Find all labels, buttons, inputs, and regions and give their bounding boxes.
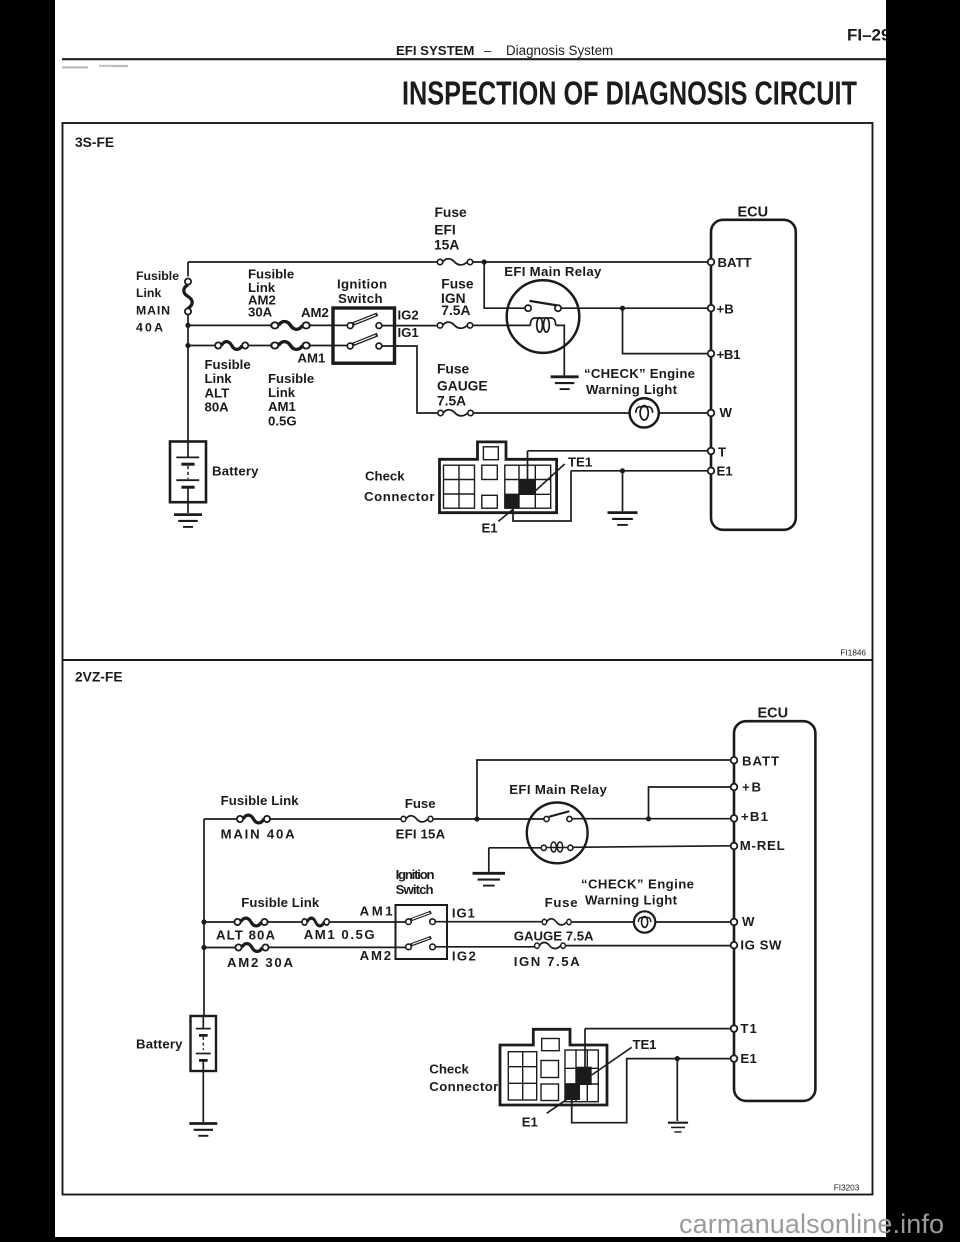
ignition switch contacts xyxy=(347,323,381,349)
warning light bulb xyxy=(634,911,655,932)
svg-text:Link: Link xyxy=(136,286,161,300)
svg-text:EFI Main Relay: EFI Main Relay xyxy=(504,264,602,279)
svg-text:–: – xyxy=(484,43,492,58)
2VZ-FE panel box xyxy=(63,660,873,1195)
svg-text:FI–29: FI–29 xyxy=(847,26,890,45)
wire IG2 to relay coil xyxy=(473,324,531,326)
fuse EFI 15A xyxy=(401,816,433,822)
wire relay to +B xyxy=(561,307,708,309)
wire T row xyxy=(528,450,708,452)
fusible link AM2 30A xyxy=(235,944,268,952)
svg-text:M-REL: M-REL xyxy=(740,838,785,853)
svg-text:7.5A: 7.5A xyxy=(441,303,470,318)
svg-text:+B: +B xyxy=(742,780,761,795)
ECU terminals xyxy=(731,757,738,1062)
svg-text:7.5A: 7.5A xyxy=(437,393,466,408)
warning light bulb xyxy=(630,398,659,427)
svg-text:+B: +B xyxy=(717,301,734,316)
relay blade xyxy=(549,811,569,817)
wire BATT riser xyxy=(477,760,731,819)
ground under E1 junction xyxy=(668,1123,688,1132)
svg-text:carmanualsonline.info: carmanualsonline.info xyxy=(679,1209,944,1239)
wire +B1 branch xyxy=(623,308,708,353)
fusible link MAIN 40A xyxy=(237,815,270,823)
svg-text:Fusible Link: Fusible Link xyxy=(221,793,300,808)
wire relay to +B1 xyxy=(572,818,731,820)
svg-text:W: W xyxy=(742,914,755,929)
svg-text:E1: E1 xyxy=(522,1114,538,1129)
TE1 pointer xyxy=(535,464,565,491)
svg-text:Fuse: Fuse xyxy=(545,895,578,910)
svg-text:ECU: ECU xyxy=(758,705,789,721)
check connector right grid xyxy=(565,1050,598,1102)
wire left riser top xyxy=(187,262,189,276)
wire relay coil to M-REL xyxy=(573,846,731,848)
relay contacts xyxy=(544,816,549,821)
svg-text:IG1: IG1 xyxy=(452,906,475,921)
2VZ-FE circuit xyxy=(136,705,815,1136)
3S-FE circuit xyxy=(136,205,796,536)
labels 2VZ-FE xyxy=(136,705,788,1129)
svg-text:T1: T1 xyxy=(740,1021,757,1036)
relay coil xyxy=(546,842,567,852)
page header xyxy=(62,26,890,112)
wire IG1 with corner down xyxy=(382,346,438,413)
svg-text:Warning Light: Warning Light xyxy=(585,893,678,908)
svg-text:AM1: AM1 xyxy=(360,903,393,918)
3S-FE panel box xyxy=(63,123,873,660)
svg-text:Fusible: Fusible xyxy=(205,357,251,372)
ECU box xyxy=(734,721,815,1101)
fusible link ALT 80A xyxy=(215,342,248,350)
wire AM2 row xyxy=(188,324,437,326)
wire battery to ground xyxy=(202,1071,204,1122)
svg-text:IG1: IG1 xyxy=(398,325,419,340)
svg-text:E1: E1 xyxy=(740,1051,757,1066)
svg-text:40A: 40A xyxy=(136,320,163,334)
check connector outline xyxy=(440,442,557,513)
svg-text:FI1846: FI1846 xyxy=(841,648,867,657)
check connector left grid xyxy=(444,447,551,508)
wire T1 row xyxy=(585,1028,731,1030)
svg-text:Fusible: Fusible xyxy=(136,269,179,283)
labels 3S-FE xyxy=(136,205,768,536)
svg-text:+B1: +B1 xyxy=(717,347,741,362)
svg-text:80A: 80A xyxy=(205,400,230,415)
fuse IGN 7.5A xyxy=(437,322,472,328)
svg-text:IG2: IG2 xyxy=(452,949,476,964)
svg-text:Connector: Connector xyxy=(429,1079,498,1094)
svg-text:Fuse: Fuse xyxy=(441,276,474,291)
svg-text:Fusible: Fusible xyxy=(268,371,314,386)
ignition switch blade IG1 xyxy=(410,912,431,920)
wire BATT row right xyxy=(473,261,708,263)
EFI main relay circle xyxy=(507,280,580,353)
wire E1 connector loop xyxy=(572,1059,731,1123)
fusible link ALT 80A xyxy=(234,918,267,926)
ignition switch blade IG2 xyxy=(352,314,378,324)
ECU terminals xyxy=(708,259,715,474)
faint scan dashes xyxy=(62,66,88,68)
svg-text:FI3203: FI3203 xyxy=(834,1184,860,1193)
svg-text:Diagnosis System: Diagnosis System xyxy=(506,43,613,58)
svg-text:W: W xyxy=(720,405,733,420)
check connector middle cells xyxy=(542,1039,560,1051)
svg-text:AM1: AM1 xyxy=(268,399,296,414)
svg-text:E1: E1 xyxy=(717,464,733,479)
svg-text:IGN 7.5A: IGN 7.5A xyxy=(514,954,580,969)
svg-text:TE1: TE1 xyxy=(568,454,592,469)
svg-text:2VZ-FE: 2VZ-FE xyxy=(75,670,123,685)
svg-text:IG SW: IG SW xyxy=(740,938,782,953)
check connector right grid xyxy=(505,465,551,508)
svg-text:ECU: ECU xyxy=(738,205,769,221)
wire +B riser xyxy=(649,787,731,819)
ground under relay xyxy=(473,873,505,885)
svg-text:Fusible Link: Fusible Link xyxy=(241,895,320,910)
check connector outline xyxy=(500,1029,607,1105)
wire IG1 to fuse GAUGE xyxy=(435,921,730,923)
svg-text:EFI Main Relay: EFI Main Relay xyxy=(509,782,607,797)
wire E1 ground drop xyxy=(676,1059,678,1121)
wire T1 drop to TE1 xyxy=(584,1029,586,1067)
relay coil xyxy=(530,318,555,332)
ground under battery xyxy=(189,1124,217,1136)
wire E1 loop to connector xyxy=(513,471,571,521)
svg-text:AM2: AM2 xyxy=(360,948,392,963)
svg-text:GAUGE: GAUGE xyxy=(437,378,488,393)
svg-text:INSPECTION OF DIAGNOSIS CIRCUI: INSPECTION OF DIAGNOSIS CIRCUIT xyxy=(402,74,857,111)
wire E1 row xyxy=(571,470,708,472)
svg-text:Link: Link xyxy=(205,371,233,386)
wire BATT drop to relay xyxy=(484,262,525,308)
svg-text:Battery: Battery xyxy=(212,464,259,479)
svg-text:AM1 0.5G: AM1 0.5G xyxy=(304,927,375,942)
wire battery to ground xyxy=(187,502,189,513)
svg-text:+B1: +B1 xyxy=(741,809,768,824)
ignition switch box xyxy=(333,308,395,363)
svg-text:MAIN: MAIN xyxy=(136,303,170,317)
wire ALT row xyxy=(204,921,406,923)
svg-text:“CHECK” Engine: “CHECK” Engine xyxy=(584,366,695,381)
svg-text:Fuse: Fuse xyxy=(405,796,436,811)
battery xyxy=(191,1016,217,1071)
svg-text:BATT: BATT xyxy=(742,754,779,769)
svg-text:AM2 30A: AM2 30A xyxy=(227,955,293,970)
wire W row xyxy=(473,412,708,414)
battery xyxy=(170,442,206,503)
terminal E1 filled xyxy=(505,494,519,508)
svg-text:Fuse: Fuse xyxy=(437,361,470,376)
relay coil terminals xyxy=(541,845,546,850)
svg-text:ALT: ALT xyxy=(205,385,230,400)
wire left riser to battery xyxy=(187,314,189,441)
EFI main relay circle xyxy=(527,803,588,864)
svg-text:GAUGE 7.5A: GAUGE 7.5A xyxy=(514,928,594,943)
fusible link MAIN 40A xyxy=(184,279,192,315)
svg-text:Check: Check xyxy=(429,1061,469,1076)
E1 pointer xyxy=(498,510,512,522)
fusible link AM1 0.5G xyxy=(271,342,310,350)
svg-text:ALT 80A: ALT 80A xyxy=(216,927,275,942)
svg-text:T: T xyxy=(718,445,726,460)
relay contacts xyxy=(525,305,531,311)
ground under E1 junction xyxy=(608,513,638,525)
wire AM2 row xyxy=(204,946,406,948)
svg-text:Ignition: Ignition xyxy=(396,867,435,882)
header rule xyxy=(62,58,886,60)
relay blade xyxy=(530,301,558,306)
wire MAIN row xyxy=(204,818,544,820)
svg-text:BATT: BATT xyxy=(718,255,752,270)
fuse IGN 7.5A xyxy=(535,942,566,948)
svg-text:Warning Light: Warning Light xyxy=(586,382,678,397)
wire T drop to TE1 xyxy=(527,451,529,480)
svg-text:AM1: AM1 xyxy=(298,350,326,365)
fusible link AM2 30A xyxy=(271,322,310,330)
wire relay coil left to ground xyxy=(489,848,541,872)
wire IG2 to IG SW xyxy=(435,946,730,947)
fusible link AM1 0.5G xyxy=(302,918,329,926)
ground under battery xyxy=(174,515,202,527)
svg-text:EFI: EFI xyxy=(434,222,455,237)
ECU box xyxy=(711,220,796,530)
wire BATT row left xyxy=(188,261,437,263)
svg-text:MAIN 40A: MAIN 40A xyxy=(221,826,295,841)
ignition switch box xyxy=(396,905,448,959)
ignition switch blade IG1 xyxy=(352,335,378,345)
svg-text:0.5G: 0.5G xyxy=(268,413,297,428)
panel frames xyxy=(63,123,873,1195)
svg-text:EFI SYSTEM: EFI SYSTEM xyxy=(396,43,474,58)
svg-text:AM2: AM2 xyxy=(301,305,329,320)
terminal TE1 filled xyxy=(576,1067,592,1085)
svg-text:3S-FE: 3S-FE xyxy=(75,135,114,150)
terminal TE1 filled xyxy=(519,480,535,495)
svg-text:Fuse: Fuse xyxy=(435,205,468,220)
svg-text:EFI 15A: EFI 15A xyxy=(396,826,446,841)
svg-text:“CHECK” Engine: “CHECK” Engine xyxy=(581,877,694,892)
fuse EFI 15A xyxy=(437,259,472,265)
TE1 pointer xyxy=(592,1047,632,1075)
E1 pointer xyxy=(547,1098,569,1113)
svg-text:Switch: Switch xyxy=(338,291,383,306)
ignition switch blade IG2 xyxy=(410,937,431,945)
svg-text:TE1: TE1 xyxy=(633,1037,657,1052)
junction dots xyxy=(185,259,625,473)
check connector left grid xyxy=(508,1039,598,1102)
wire AM1 row xyxy=(188,345,347,347)
svg-text:Switch: Switch xyxy=(396,882,434,897)
terminal E1 filled xyxy=(565,1083,580,1100)
wire left riser xyxy=(203,819,205,1016)
wire E1 ground drop xyxy=(622,471,624,512)
svg-text:IG2: IG2 xyxy=(398,307,419,322)
fuse GAUGE 7.5A xyxy=(542,919,571,925)
junction dots xyxy=(201,816,680,1061)
fuse GAUGE 7.5A xyxy=(438,410,473,416)
ground under relay xyxy=(551,377,579,389)
ignition switch contacts xyxy=(406,919,436,950)
svg-text:E1: E1 xyxy=(482,520,498,535)
svg-text:30A: 30A xyxy=(248,305,273,320)
svg-text:Connector: Connector xyxy=(364,489,435,504)
svg-text:Check: Check xyxy=(365,469,405,484)
check connector middle cells xyxy=(483,447,498,460)
svg-text:Battery: Battery xyxy=(136,1036,183,1051)
wire relay coil to ground xyxy=(556,325,565,375)
svg-text:Ignition: Ignition xyxy=(337,276,387,291)
svg-text:15A: 15A xyxy=(434,237,459,252)
